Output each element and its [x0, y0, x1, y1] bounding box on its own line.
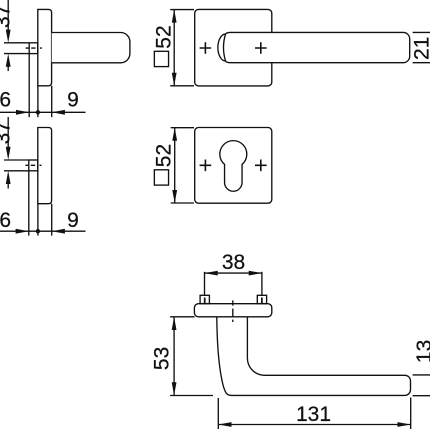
- dimension 37 (A): label: [0, 5, 14, 28]
- front view: right screw cross: [255, 42, 267, 54]
- dimension 21: bottom extension line: [413, 62, 430, 64]
- dimension 131: dim line: [218, 424, 410, 426]
- dimension 6-9 (row1): dim line: [0, 111, 86, 113]
- front view: euro cylinder keyhole: [220, 141, 247, 192]
- dimension 37 (B): upper arrow: [6, 147, 11, 160]
- front view: square escutcheon: [195, 128, 272, 204]
- front view escutcheon: left screw cross: [200, 160, 212, 172]
- svg-text:6: 6: [0, 89, 11, 112]
- dimension square52 (row1): dim line: [173, 9, 175, 86]
- dimension square52 (row2): bottom arrow: [172, 190, 177, 203]
- dimension 6-9 (row2): extension line from body left: [37, 204, 39, 236]
- dimension square52 (row2): dim line: [174, 128, 176, 204]
- dimension 37 (A): lower tail: [7, 66, 9, 71]
- svg-text:9: 9: [67, 209, 79, 232]
- dimension 37 (B): lower arrow: [6, 171, 11, 184]
- dimension 37 (A): lower arrow: [6, 54, 11, 67]
- top view: left screw head: [200, 295, 209, 303]
- dimension 131: left arrow: [218, 422, 231, 427]
- dimension 13: bottom extension line: [413, 395, 430, 397]
- dimension square52 (row1): label: [153, 25, 176, 66]
- top view: right screw slot: [261, 298, 263, 304]
- side view B: extension line square top: [4, 159, 29, 161]
- dimension square52 (row1): top arrow: [172, 9, 177, 22]
- dimension square52 (row1): bottom arrow: [172, 73, 177, 86]
- dimension 37 (B): lower tail: [7, 184, 9, 189]
- dimension 53: top extension line: [170, 316, 195, 318]
- dimension 37 (B): upper line: [7, 117, 9, 149]
- front view: lever bar: [224, 32, 410, 62]
- dimension 38: extension line left (through screw): [204, 272, 206, 296]
- top view: left screw slot: [204, 298, 206, 304]
- dimension 6-9 (row2): junction dot: [36, 229, 40, 233]
- side view A: spindle square: [29, 43, 38, 54]
- dimension 13: label: [413, 340, 430, 363]
- svg-text:52: 52: [153, 144, 176, 167]
- svg-text:38: 38: [222, 251, 245, 274]
- dimension 6-9 (row2): extension line from body right: [51, 204, 53, 236]
- dimension square52 (row2): top extension line: [171, 127, 194, 129]
- dimension 131: left extension line: [217, 398, 219, 429]
- dimension square52 (row2): top arrow: [172, 128, 177, 141]
- svg-text:53: 53: [151, 347, 174, 370]
- svg-text:9: 9: [67, 89, 79, 112]
- top view: handle outline: [217, 317, 411, 396]
- svg-text:21: 21: [410, 37, 430, 60]
- dimension 13: top extension line: [413, 374, 430, 376]
- dimension square52 (row1): top extension line: [170, 9, 194, 11]
- dimension square52 (row2): bottom extension line: [171, 202, 194, 204]
- side view B: centerline dashes: [25, 164, 41, 166]
- dimension square52 (row2): label: [153, 144, 176, 185]
- dimension 6-9 (row2): dim line: [0, 230, 86, 232]
- dimension 6-9 (row1): junction dot: [36, 110, 40, 114]
- dimension 38: right arrow: [249, 271, 262, 276]
- top view: right screw head: [257, 295, 266, 303]
- dimension 131: right extension line: [410, 398, 412, 430]
- svg-text:131: 131: [296, 403, 331, 426]
- svg-text:13: 13: [413, 340, 430, 363]
- dimension 37 (B): label: [0, 121, 14, 144]
- dimension 6-9 (row2): left-pointing arrow: [52, 229, 65, 234]
- dimension 53: dim line: [173, 317, 175, 396]
- dimension 37 (A): upper arrow: [6, 30, 11, 43]
- side view A: rosette body: [38, 9, 52, 85]
- svg-text:6: 6: [0, 209, 11, 232]
- dimension 38: extension line right (through screw): [261, 272, 263, 296]
- side view B: escutcheon body: [38, 128, 52, 204]
- dimension 53: top arrow: [172, 317, 177, 330]
- svg-text:52: 52: [153, 25, 176, 48]
- front view: square rosette: [195, 9, 272, 86]
- side view A: handle neck bar: [52, 33, 130, 63]
- dimension 53: bottom arrow: [172, 382, 177, 395]
- side view A: spindle centerline dashes: [26, 47, 42, 49]
- dimension 6-9 (row2): extension line from square: [28, 171, 30, 236]
- dimension 37 (A): upper line: [7, 0, 9, 32]
- dimension 6-9 (row1): extension line from spindle: [28, 54, 30, 118]
- dimension 53: bottom extension line: [170, 395, 213, 397]
- front view: lever end dome arc: [218, 34, 226, 61]
- dimension 6-9 (row1): right-pointing arrow: [16, 110, 29, 115]
- side view B: cylinder square: [29, 160, 38, 171]
- dimension 21: label: [410, 37, 430, 60]
- top view: plate centerline dashes: [232, 300, 234, 322]
- dimension 131: right arrow: [398, 422, 411, 427]
- svg-text:37: 37: [0, 121, 14, 144]
- side view A: extension line spindle bottom: [4, 53, 29, 55]
- side view A: extension line spindle top: [4, 42, 29, 44]
- side view B: extension line square bottom: [4, 170, 29, 172]
- dimension 21: top extension line: [413, 31, 430, 33]
- front view: left screw cross: [200, 42, 212, 54]
- front view escutcheon: right screw cross: [255, 160, 267, 172]
- svg-text:37: 37: [0, 5, 14, 28]
- dimension 6-9 (row1): left-pointing arrow: [52, 110, 65, 115]
- dimension 53: label: [151, 347, 174, 370]
- dimension 6-9 (row2): right-pointing arrow: [16, 229, 29, 234]
- dimension square52 (row1): bottom extension line: [170, 85, 194, 87]
- dimension 38: dim line: [204, 272, 262, 274]
- dimension 6-9 (row1): extension line from body left: [37, 86, 39, 117]
- dimension 6-9 (row1): extension line from body right: [51, 86, 53, 117]
- dimension 38: left arrow: [205, 271, 218, 276]
- top view: rosette plate: [194, 304, 271, 317]
